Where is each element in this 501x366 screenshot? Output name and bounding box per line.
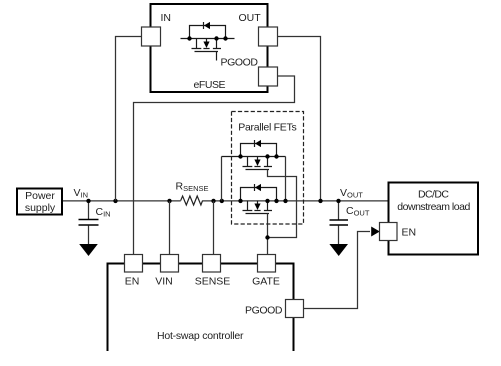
wire hot-swap PGOOD to DC/DC EN [304,232,371,309]
svg-text:VIN: VIN [155,276,173,288]
pin PGOOD (controller) [286,300,304,318]
wire VOUT rail from RSENSE to DC/DC load [203,200,389,202]
pin SENSE (controller) [203,255,221,273]
node dots Q2 [238,154,242,158]
power supply box [17,189,62,215]
resistor RSENSE [181,196,203,205]
capacitor COUT [330,201,349,244]
pin GATE (controller) [258,255,276,273]
hot-swap controller box (open bottom) [108,264,294,352]
wire Q3 gate to GATE pin [267,214,269,255]
svg-text:GATE: GATE [252,276,280,288]
wire SENSE pin stub [213,201,215,255]
svg-text:supply: supply [25,202,56,214]
pin OUT (eFUSE) [259,27,278,46]
svg-text:EN: EN [125,276,140,288]
wire upper FET drain to rail [221,157,223,201]
wire eFUSE PGOOD to hot-swap EN [134,76,295,255]
pin EN (DC/DC) [380,223,398,241]
svg-text:SENSE: SENSE [195,276,231,288]
wire eFUSE IN to VIN rail [116,37,142,201]
svg-text:Hot-swap controller: Hot-swap controller [157,330,244,342]
capacitor CIN [79,201,99,244]
transistor Q2 (upper parallel FET) [222,140,286,170]
pin VIN (controller) [161,255,179,273]
Parallel FETs dashed box [232,112,304,225]
wire gate link between Q2 and Q3 gates [268,170,297,238]
pin EN (controller) [125,255,143,273]
node dots Q1 [187,36,191,40]
arrowhead into EN [371,227,380,237]
pin PGOOD (eFUSE) [259,67,278,86]
transistor Q1 (eFUSE internal FET) [181,22,235,61]
transistor Q3 (lower parallel FET) [241,184,277,214]
node dots Q3 [238,199,242,203]
svg-text:EN: EN [402,227,417,239]
wire VIN rail from power supply to RSENSE [63,200,181,202]
svg-text:Power: Power [25,190,55,202]
svg-text:IN: IN [161,12,172,24]
svg-text:downstream load: downstream load [397,201,470,213]
svg-text:Parallel FETs: Parallel FETs [238,122,297,134]
wire upper FET source to rail [285,157,287,201]
node junction dot eFUSE IN [113,199,117,203]
ground (COUT) [329,244,348,256]
node junction dot gate net [265,235,269,239]
node junction dot eFUSE OUT on rail [318,199,322,203]
node junction dot COUT [336,199,340,203]
node junction dot SENSE pin [211,199,215,203]
eFUSE box [151,4,268,92]
wire VIN pin stub [169,201,171,255]
node junction dot upper FET left [220,199,224,203]
svg-text:PGOOD: PGOOD [245,305,283,317]
svg-text:DC/DC: DC/DC [418,189,449,201]
node junction dot VIN pin [167,199,171,203]
wire eFUSE OUT to VOUT rail [278,37,321,201]
ground (CIN) [79,244,98,256]
node junction dot CIN [86,199,90,203]
node junction dot upper FET right on rail [283,199,287,203]
svg-text:PGOOD: PGOOD [221,57,259,69]
DC/DC downstream load box [389,183,479,255]
svg-text:OUT: OUT [239,12,262,24]
svg-text:eFUSE: eFUSE [194,79,226,91]
pin IN (eFUSE) [142,27,161,46]
